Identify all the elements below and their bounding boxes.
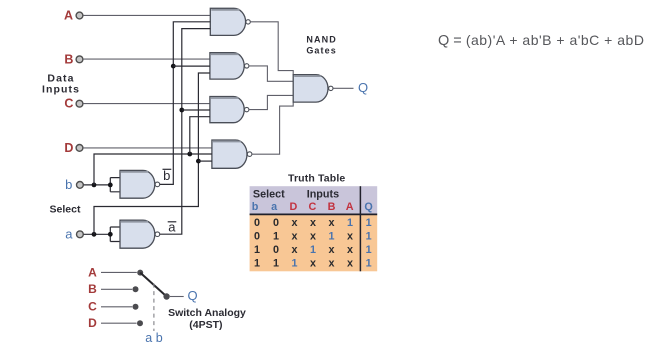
nand gate U6 (inverter for a) xyxy=(120,220,160,248)
wire U1 output to U7 xyxy=(250,22,293,75)
switch analogy contact A xyxy=(137,270,143,276)
svg-text:C: C xyxy=(64,97,73,111)
svg-text:1: 1 xyxy=(366,217,372,229)
switch analogy contact B xyxy=(133,286,139,292)
wire b direct to U4 and U3 xyxy=(94,154,212,185)
svg-text:B: B xyxy=(328,201,336,213)
svg-text:Q: Q xyxy=(364,201,372,213)
junction b to U3 branch xyxy=(187,152,192,157)
switch analogy arm xyxy=(140,273,166,297)
svg-text:b: b xyxy=(65,177,72,192)
wire a fork into U6 xyxy=(110,227,120,242)
nand gate U2 (input B) xyxy=(210,53,249,79)
table row 1 xyxy=(254,217,372,229)
wire C to U3 xyxy=(83,103,210,105)
junction a fork tee xyxy=(108,232,113,237)
switch analogy pivot xyxy=(163,293,169,299)
net abar label xyxy=(168,220,177,235)
svg-text:C: C xyxy=(88,300,97,314)
wire a direct to U2 xyxy=(94,73,210,234)
svg-text:1: 1 xyxy=(347,217,353,229)
svg-text:Inputs: Inputs xyxy=(42,84,80,96)
svg-text:b: b xyxy=(163,168,170,183)
wire b fork into U5 xyxy=(110,178,120,192)
table row 3 xyxy=(254,244,372,256)
svg-text:b: b xyxy=(252,201,259,213)
junction b branch xyxy=(92,183,97,188)
wire b input to inverter U5 xyxy=(84,184,111,186)
wire U4 output to U7 xyxy=(252,102,293,154)
svg-text:x: x xyxy=(291,231,297,243)
switch analogy wire B xyxy=(101,288,132,290)
table header divider xyxy=(250,213,378,215)
svg-text:x: x xyxy=(347,231,353,243)
svg-text:1: 1 xyxy=(366,231,372,243)
svg-text:1: 1 xyxy=(310,244,316,256)
svg-text:1: 1 xyxy=(291,257,297,269)
svg-text:1: 1 xyxy=(254,257,260,269)
svg-text:1: 1 xyxy=(328,231,334,243)
switch analogy contact D xyxy=(137,320,143,326)
junction abar to U3 xyxy=(179,108,184,113)
svg-text:C: C xyxy=(308,201,316,213)
svg-text:1: 1 xyxy=(273,257,279,269)
svg-text:1: 1 xyxy=(273,231,279,243)
svg-text:A: A xyxy=(88,265,97,279)
terminal C xyxy=(76,100,83,107)
switch analogy contact C xyxy=(133,304,139,310)
terminal a xyxy=(77,231,84,238)
svg-text:Q = (ab)'A + ab'B + a'bC + abD: Q = (ab)'A + ab'B + a'bC + abD xyxy=(438,32,644,49)
net bbar label xyxy=(163,168,172,183)
svg-text:D: D xyxy=(88,316,97,330)
wire bbar from U5 up to U1 xyxy=(160,22,211,185)
svg-text:x: x xyxy=(291,217,297,229)
wire a branch to U4 xyxy=(198,160,212,162)
svg-text:x: x xyxy=(310,231,316,243)
junction a to U4 branch xyxy=(196,159,201,164)
wire A to U1 xyxy=(83,14,210,16)
svg-text:1: 1 xyxy=(366,244,372,256)
svg-text:a: a xyxy=(271,201,278,213)
svg-text:a: a xyxy=(65,226,73,241)
wire a input to inverter U6 xyxy=(84,233,111,235)
wire U3 output to U7 xyxy=(249,95,293,109)
table Q column divider xyxy=(359,186,361,271)
nand gate U3 (input C) xyxy=(210,97,249,123)
nand gate U1 (input A) xyxy=(210,8,250,35)
svg-text:0: 0 xyxy=(273,217,279,229)
wire B to U2 xyxy=(83,58,210,60)
nand gate U5 (inverter for b) xyxy=(120,170,160,198)
terminal b xyxy=(77,182,84,189)
table row 4 xyxy=(254,257,372,269)
table body background xyxy=(250,214,378,271)
svg-text:1: 1 xyxy=(254,244,260,256)
wire b branch up to U3 xyxy=(190,117,210,154)
nand gate U7 (output) xyxy=(293,75,333,103)
svg-text:1: 1 xyxy=(366,257,372,269)
truth table xyxy=(250,186,378,271)
svg-text:Select: Select xyxy=(253,189,285,201)
svg-text:x: x xyxy=(328,244,334,256)
svg-text:x: x xyxy=(310,217,316,229)
svg-text:Select: Select xyxy=(50,203,81,215)
svg-text:Q: Q xyxy=(358,80,368,95)
svg-text:0: 0 xyxy=(273,244,279,256)
junction bbar to U2 xyxy=(171,64,176,69)
switch analogy wire C xyxy=(101,306,132,308)
svg-text:A: A xyxy=(346,201,354,213)
svg-text:D: D xyxy=(289,201,297,213)
wire D to U4 xyxy=(83,147,212,149)
terminal B xyxy=(76,56,83,63)
switch analogy wire A xyxy=(101,271,137,273)
svg-text:Inputs: Inputs xyxy=(307,189,339,201)
terminal D xyxy=(76,145,83,152)
svg-text:Truth Table: Truth Table xyxy=(288,172,345,184)
table row 2 xyxy=(254,231,372,243)
nand gate U4 (input D) xyxy=(212,140,252,168)
svg-text:0: 0 xyxy=(254,217,260,229)
svg-text:x: x xyxy=(347,257,353,269)
junction a branch xyxy=(92,232,97,237)
svg-text:Switch Analogy: Switch Analogy xyxy=(168,307,246,319)
svg-text:x: x xyxy=(328,217,334,229)
svg-text:A: A xyxy=(64,8,73,22)
svg-text:x: x xyxy=(347,244,353,256)
svg-text:Gates: Gates xyxy=(306,45,337,55)
wire Q output xyxy=(333,87,353,89)
table header background xyxy=(250,186,378,214)
switch analogy wire to Q xyxy=(170,296,184,298)
switch analogy select dashed line xyxy=(153,284,155,331)
svg-text:D: D xyxy=(64,141,73,155)
wire U2 output to U7 xyxy=(249,66,293,81)
svg-text:B: B xyxy=(64,52,73,66)
junction b fork tee xyxy=(108,183,113,188)
wire bbar branch to U2 xyxy=(173,65,210,67)
switch analogy wire D xyxy=(101,322,137,324)
wire abar branch to U3 xyxy=(182,109,210,111)
svg-text:x: x xyxy=(328,257,334,269)
svg-text:x: x xyxy=(310,257,316,269)
svg-text:a b: a b xyxy=(145,331,162,345)
svg-text:x: x xyxy=(291,244,297,256)
svg-text:NAND: NAND xyxy=(306,34,336,44)
svg-text:0: 0 xyxy=(254,231,260,243)
svg-text:B: B xyxy=(88,282,97,296)
svg-text:(4PST): (4PST) xyxy=(189,319,222,331)
wire abar from U6 up to U1 xyxy=(160,29,211,235)
terminal A xyxy=(76,12,83,19)
svg-text:Q: Q xyxy=(187,288,197,303)
